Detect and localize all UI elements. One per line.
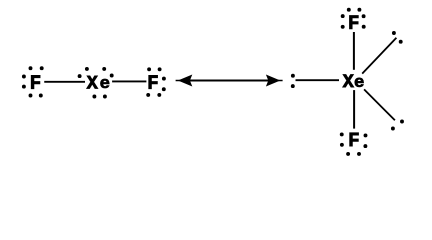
resonance arrow right tip spike xyxy=(277,80,283,82)
lone pair F2 bottom xyxy=(146,93,161,97)
lone pair Xe-left right dot xyxy=(110,74,114,78)
lone pair Xe-left left dot xyxy=(78,74,82,78)
lone pair lower-right diagonal xyxy=(391,120,404,131)
atom letter F2 (F) xyxy=(149,76,158,89)
half-bond upper-right diagonal xyxy=(362,38,396,74)
lone pair F2 right xyxy=(162,77,166,92)
lone pair Fbot bottom xyxy=(346,152,361,156)
lone pair Fbot right xyxy=(363,133,367,148)
atom letter XeL-e (e) xyxy=(100,79,109,88)
lone pair Xe-left bottom xyxy=(92,95,106,99)
lone pair Xe-left top-left dot xyxy=(85,67,89,71)
resonance arrow shaft xyxy=(190,80,269,82)
atom letter Fbot (F) xyxy=(350,133,359,146)
atom letter XeR-e (e) xyxy=(355,78,364,87)
bond Xe-F2 xyxy=(112,80,146,82)
lone pair upper-right diagonal xyxy=(392,31,403,44)
lone pair Fbot left xyxy=(340,132,344,146)
lone pair Ftop left xyxy=(341,14,345,29)
lone pair Ftop top xyxy=(347,8,362,12)
bond Xe-Ftop xyxy=(353,32,355,70)
bond F1-Xe xyxy=(44,81,85,83)
atom letter XeL-X (X) xyxy=(87,76,98,88)
lone pair F2 top xyxy=(147,67,161,71)
atom letter XeR-X (X) xyxy=(343,75,354,87)
resonance arrow left tip spike xyxy=(176,80,182,82)
half-bond lower-right diagonal xyxy=(364,89,395,120)
lone pair left of right structure xyxy=(291,74,295,88)
atom letter Ftop (F) xyxy=(350,16,359,29)
lone pair F1 left xyxy=(22,75,26,89)
bond lp-Xe right structure xyxy=(296,79,340,81)
resonance arrow left head xyxy=(178,75,192,87)
lone pair F1 bottom xyxy=(29,94,43,98)
bond Xe-Fbot xyxy=(353,90,355,129)
lone pair Ftop right xyxy=(362,14,366,28)
lone pair F1 top xyxy=(29,66,44,70)
atom letter F1 (F) xyxy=(31,76,40,89)
resonance arrow right head xyxy=(266,75,280,87)
lone pair Xe-left top-right dot xyxy=(102,67,106,71)
